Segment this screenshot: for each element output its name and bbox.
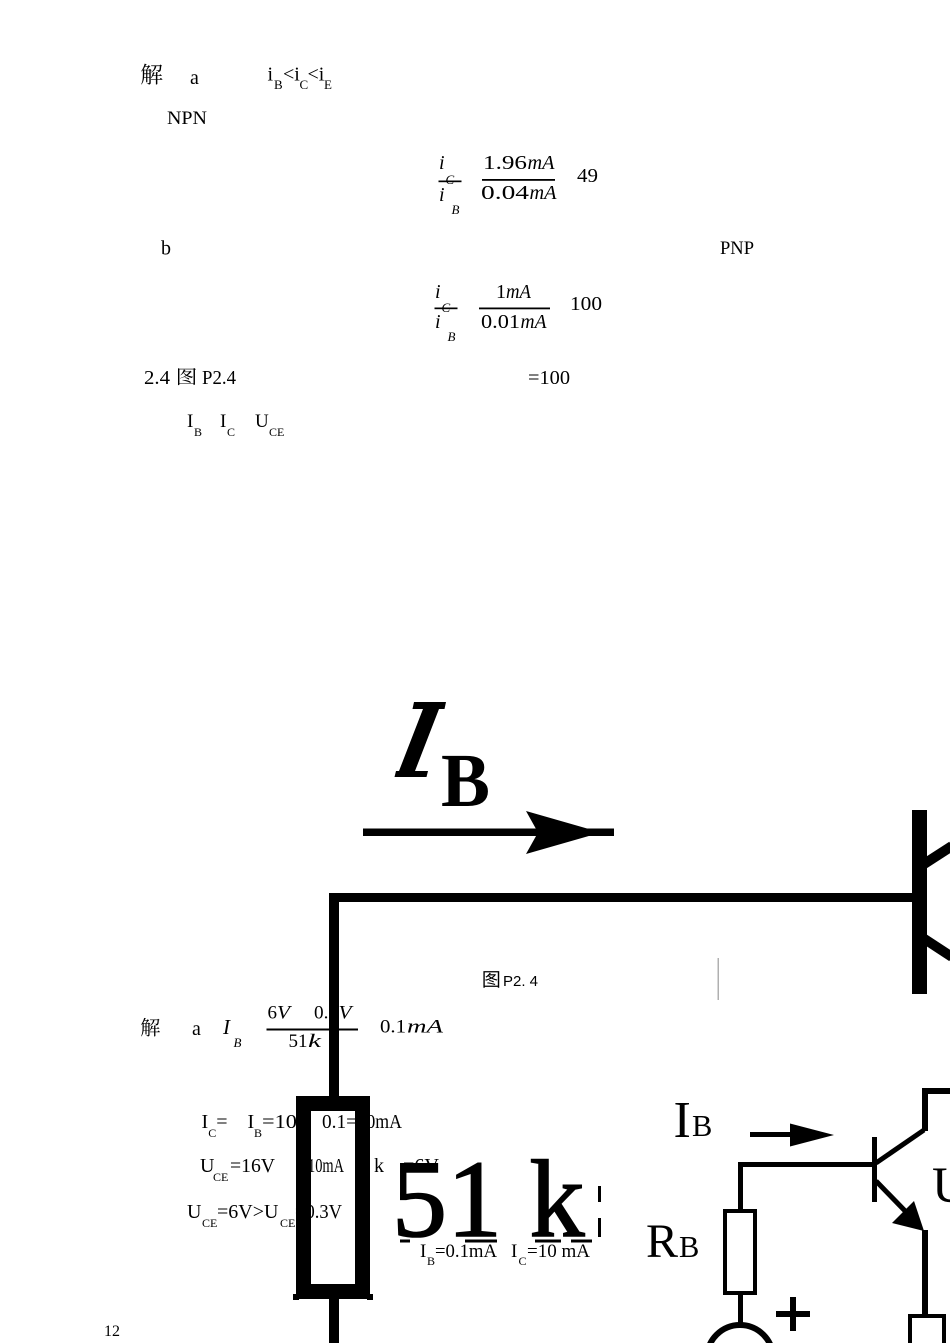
svg-text:U: U bbox=[187, 1201, 202, 1223]
label I_B large bbox=[413, 702, 447, 709]
svg-text:B: B bbox=[274, 77, 283, 92]
voltage source circle bbox=[707, 1325, 773, 1343]
Q2 collector vertical + top wire bbox=[925, 1091, 950, 1131]
wire to RB bbox=[738, 1164, 743, 1211]
svg-text:0.01: 0.01 bbox=[481, 311, 520, 333]
svg-text:i: i bbox=[435, 311, 441, 333]
svg-text:51: 51 bbox=[289, 1031, 308, 1052]
plus sign bbox=[790, 1297, 796, 1331]
svg-text:a: a bbox=[192, 1018, 201, 1040]
svg-text:B: B bbox=[194, 425, 202, 439]
svg-text:U: U bbox=[932, 1158, 950, 1214]
svg-text:C: C bbox=[446, 172, 455, 187]
svg-text:U: U bbox=[264, 1201, 279, 1223]
svg-text:k: k bbox=[308, 1031, 322, 1052]
svg-text:1: 1 bbox=[496, 281, 506, 303]
label 图 serif bbox=[178, 368, 196, 385]
svg-text:2.4: 2.4 bbox=[144, 367, 170, 389]
svg-text:V: V bbox=[339, 1003, 355, 1024]
svg-text:B: B bbox=[448, 329, 456, 344]
svg-text:k: k bbox=[374, 1155, 384, 1177]
svg-text:B: B bbox=[692, 1109, 712, 1143]
svg-text:=6V>: =6V> bbox=[217, 1201, 264, 1223]
tick right bbox=[367, 1294, 373, 1300]
svg-text:C: C bbox=[227, 425, 235, 439]
svg-text:CE: CE bbox=[213, 1170, 228, 1184]
svg-text:CE: CE bbox=[202, 1216, 217, 1230]
current arrow bbox=[363, 829, 614, 837]
svg-text:P2. 4: P2. 4 bbox=[503, 973, 538, 990]
broken omega tick 2 bbox=[598, 1218, 601, 1237]
Q2 emitter arrowhead bbox=[892, 1201, 924, 1231]
wire RB to source bbox=[738, 1293, 743, 1323]
broken omega tick 1 bbox=[598, 1186, 601, 1202]
svg-text:10mA: 10mA bbox=[308, 1155, 344, 1177]
base wire bbox=[738, 1162, 874, 1167]
svg-text:B: B bbox=[452, 202, 460, 217]
scan dashes bbox=[400, 1240, 410, 1243]
svg-text:B: B bbox=[679, 1230, 699, 1264]
svg-text:mA: mA bbox=[506, 281, 532, 303]
svg-text:R: R bbox=[646, 1215, 678, 1268]
Q2 emitter diagonal bbox=[876, 1181, 910, 1216]
svg-text:CE: CE bbox=[280, 1216, 295, 1230]
svg-text:I: I bbox=[674, 1092, 691, 1149]
wire: base horizontal bbox=[329, 893, 912, 902]
caption 图 P2. 4 bbox=[483, 971, 499, 988]
svg-text:a: a bbox=[190, 67, 199, 89]
svg-text:6: 6 bbox=[268, 1003, 278, 1024]
Q1 collector stub bbox=[921, 846, 950, 866]
svg-text:=16V: =16V bbox=[230, 1155, 276, 1177]
svg-text:mA: mA bbox=[521, 311, 548, 333]
svg-text:NPN: NPN bbox=[167, 108, 207, 129]
label 解 line 2 bbox=[141, 1018, 160, 1037]
svg-text:P2.4: P2.4 bbox=[202, 367, 236, 389]
Q2 collector diagonal bbox=[876, 1130, 924, 1163]
svg-text:mA: mA bbox=[407, 1017, 444, 1038]
svg-text:12: 12 bbox=[104, 1323, 120, 1340]
svg-text:0.04: 0.04 bbox=[481, 182, 529, 204]
svg-text:=100: =100 bbox=[528, 367, 570, 389]
svg-text:i: i bbox=[268, 64, 274, 86]
transistor Q1 bar bbox=[912, 810, 927, 994]
Q2 emitter vertical wire bbox=[922, 1230, 928, 1314]
svg-text:E: E bbox=[324, 77, 332, 92]
svg-text:b: b bbox=[161, 238, 171, 260]
svg-text:I: I bbox=[220, 411, 226, 432]
svg-text:i: i bbox=[439, 184, 445, 206]
svg-text:i: i bbox=[439, 152, 445, 174]
fraction bar bbox=[267, 1029, 359, 1031]
svg-text:0.7: 0.7 bbox=[314, 1003, 338, 1024]
svg-text:I: I bbox=[202, 1111, 209, 1133]
svg-text:=: = bbox=[216, 1111, 227, 1133]
svg-text:1.96: 1.96 bbox=[483, 152, 527, 174]
svg-text:U: U bbox=[255, 411, 269, 432]
transistor Q2 bar bbox=[872, 1137, 877, 1202]
svg-text:<i: <i bbox=[308, 64, 325, 86]
svg-text:<i: <i bbox=[283, 64, 300, 86]
svg-text:I: I bbox=[222, 1015, 231, 1039]
resistor RC (cut) bbox=[910, 1316, 944, 1343]
wire below resistor bbox=[329, 1299, 339, 1343]
svg-text:49: 49 bbox=[577, 165, 598, 187]
svg-text:CE: CE bbox=[269, 425, 284, 439]
stray gray line bbox=[718, 958, 720, 1000]
resistor RB bbox=[725, 1211, 755, 1293]
svg-text:100: 100 bbox=[570, 293, 602, 315]
Q1 emitter stub bbox=[923, 938, 950, 957]
svg-text:B: B bbox=[254, 1126, 262, 1140]
svg-text:PNP: PNP bbox=[720, 238, 754, 259]
label 解 line 1 bbox=[141, 64, 162, 85]
svg-text:mA: mA bbox=[528, 152, 556, 174]
svg-text:B: B bbox=[441, 739, 490, 823]
svg-text:mA: mA bbox=[530, 182, 558, 204]
svg-text:0.1=: 0.1= bbox=[322, 1111, 357, 1133]
svg-text:0.1: 0.1 bbox=[380, 1017, 406, 1038]
tick left bbox=[293, 1294, 299, 1300]
svg-text:V: V bbox=[277, 1003, 293, 1024]
svg-text:B: B bbox=[234, 1035, 242, 1050]
resistor body (huge) bbox=[304, 1104, 363, 1292]
svg-text:i: i bbox=[435, 281, 441, 303]
wire: vertical to resistor bbox=[329, 893, 339, 1096]
svg-text:C: C bbox=[208, 1126, 216, 1140]
svg-text:I: I bbox=[187, 411, 193, 432]
current arrow bbox=[750, 1132, 805, 1137]
